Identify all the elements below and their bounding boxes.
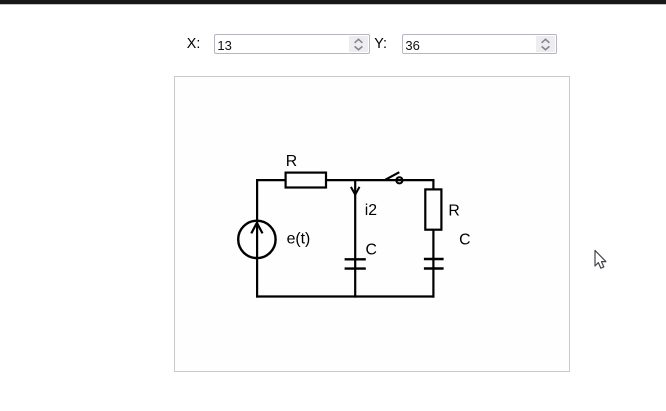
label X: <box>187 37 201 51</box>
svg-text:i2: i2 <box>365 202 377 219</box>
source e(t) circle <box>238 221 275 258</box>
resistor R (top) <box>286 173 326 188</box>
svg-text:C: C <box>459 232 470 249</box>
current arrow i2 <box>351 187 360 195</box>
svg-text:R: R <box>448 203 459 220</box>
label Y: <box>374 37 387 51</box>
spinbox Y value 36 <box>402 34 556 54</box>
wire top <box>256 179 435 181</box>
capacitor C (right) plates <box>424 258 444 260</box>
capacitor C (middle) plates <box>345 258 366 260</box>
wire left branch <box>256 179 258 298</box>
mouse cursor <box>595 250 606 268</box>
switch contact node <box>396 177 402 183</box>
resistor R (right) <box>425 189 441 229</box>
switch blade <box>384 172 399 180</box>
svg-text:e(t): e(t) <box>287 231 311 248</box>
spinbox X value 13 <box>214 34 370 54</box>
svg-text:R: R <box>286 153 297 170</box>
window top bar <box>0 0 666 4</box>
wire bottom <box>256 295 435 297</box>
schematic canvas panel <box>174 76 570 373</box>
wire middle branch <box>354 179 356 298</box>
svg-text:C: C <box>366 241 377 258</box>
source arrow head <box>251 223 262 234</box>
wire right branch <box>432 179 434 298</box>
